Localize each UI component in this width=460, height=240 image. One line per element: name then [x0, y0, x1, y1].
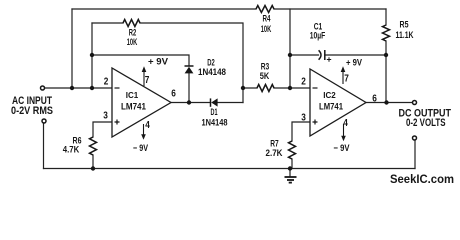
svg-text:R7: R7: [270, 139, 279, 149]
svg-text:+ 9V: + 9V: [346, 57, 363, 68]
svg-text:6: 6: [171, 89, 176, 100]
svg-text:R3: R3: [261, 62, 270, 72]
svg-text:R4: R4: [263, 14, 272, 24]
svg-text:4.7K: 4.7K: [63, 145, 80, 155]
svg-text:10µF: 10µF: [310, 31, 326, 41]
svg-text:R2: R2: [129, 28, 137, 38]
svg-text:3: 3: [301, 113, 306, 124]
svg-text:LM741: LM741: [121, 101, 146, 112]
svg-text:4: 4: [343, 118, 348, 129]
svg-text:4: 4: [145, 120, 150, 131]
svg-text:− 9V: − 9V: [334, 142, 351, 153]
svg-text:IC1: IC1: [126, 91, 139, 100]
svg-text:+ 9V: + 9V: [148, 56, 169, 67]
svg-text:R5: R5: [400, 20, 409, 30]
svg-text:1N4148: 1N4148: [198, 67, 226, 77]
svg-text:6: 6: [372, 94, 377, 105]
svg-text:D1: D1: [211, 107, 218, 117]
svg-text:5K: 5K: [260, 71, 270, 81]
svg-text:10K: 10K: [261, 24, 272, 34]
svg-text:10K: 10K: [127, 37, 138, 47]
svg-text:2.7K: 2.7K: [266, 148, 283, 158]
svg-text:0-2 VOLTS: 0-2 VOLTS: [406, 117, 446, 129]
svg-text:7: 7: [344, 74, 349, 85]
svg-text:2: 2: [104, 77, 109, 88]
svg-text:IC2: IC2: [323, 91, 336, 100]
svg-text:D2: D2: [207, 58, 215, 68]
svg-text:LM741: LM741: [319, 101, 343, 112]
svg-text:11.1K: 11.1K: [396, 30, 414, 40]
svg-text:1N4148: 1N4148: [202, 118, 228, 128]
svg-text:− 9V: − 9V: [133, 142, 149, 153]
svg-text:SeekIC.com: SeekIC.com: [390, 174, 454, 186]
svg-text:7: 7: [145, 75, 150, 86]
svg-text:3: 3: [103, 111, 108, 122]
svg-text:2: 2: [301, 77, 306, 88]
svg-text:0-2V RMS: 0-2V RMS: [11, 105, 53, 117]
